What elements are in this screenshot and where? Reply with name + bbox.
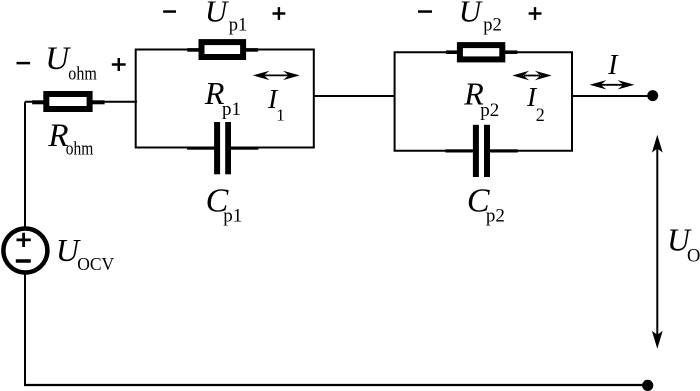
- wire loop2 to output node: [572, 95, 653, 97]
- wire bottom horizontal: [24, 384, 648, 386]
- svg-text:U: U: [459, 0, 484, 29]
- label minus U_p1: [163, 10, 176, 13]
- svg-text:U: U: [205, 0, 230, 29]
- voltage source minus sign: [16, 259, 31, 263]
- voltage arrow U_O double headed vertical: [652, 135, 663, 349]
- svg-text:ohm: ohm: [66, 140, 94, 160]
- svg-text:p1: p1: [229, 16, 248, 36]
- wire loop2 rectangle: [395, 52, 572, 150]
- svg-text:p1: p1: [222, 99, 241, 120]
- capacitor C_p2 gap mask: [476, 145, 485, 157]
- current arrow I output: [590, 80, 635, 89]
- node top right: [647, 90, 658, 101]
- wire R_ohm axis to loop1: [25, 101, 137, 103]
- label plus U_p2: [529, 7, 542, 20]
- node bottom right: [642, 380, 653, 391]
- label plus U_ohm: [112, 58, 126, 71]
- svg-text:p2: p2: [480, 100, 499, 121]
- resistor R_p2 stubs: [446, 50, 458, 54]
- svg-text:I: I: [607, 50, 619, 81]
- label plus U_p1: [273, 7, 286, 20]
- svg-text:p2: p2: [486, 205, 505, 226]
- resistor R_ohm body: [46, 94, 89, 109]
- svg-text:1: 1: [276, 105, 285, 124]
- svg-text:ohm: ohm: [68, 65, 97, 85]
- capacitor C_p1 gap mask: [218, 142, 227, 154]
- svg-text:O: O: [687, 247, 700, 267]
- wire left vertical from R_ohm down past source to bottom: [24, 102, 26, 385]
- wire loop1 rectangle: [136, 50, 314, 148]
- capacitor C_p2 plates: [473, 125, 479, 177]
- label minus U_p2: [418, 10, 432, 13]
- wire connector loop1 to loop2: [314, 95, 395, 97]
- svg-text:p1: p1: [223, 206, 242, 227]
- voltage source plus sign: [17, 233, 31, 247]
- capacitor C_p2 stubs: [446, 149, 473, 152]
- svg-text:2: 2: [536, 106, 545, 126]
- label minus U_ohm: [17, 62, 31, 65]
- capacitor C_p1 stubs: [187, 147, 214, 150]
- current arrow I2: [512, 71, 551, 80]
- resistor R_p2 body: [460, 45, 502, 59]
- current arrow I1: [253, 71, 300, 80]
- voltage source U_OCV circle: [3, 229, 47, 273]
- svg-text:OCV: OCV: [77, 254, 114, 274]
- resistor R_ohm stubs: [32, 100, 44, 104]
- resistor R_p1 stubs: [187, 48, 199, 52]
- capacitor C_p1 plates: [214, 122, 220, 174]
- svg-text:p2: p2: [483, 16, 502, 36]
- resistor R_p1 body: [202, 42, 244, 57]
